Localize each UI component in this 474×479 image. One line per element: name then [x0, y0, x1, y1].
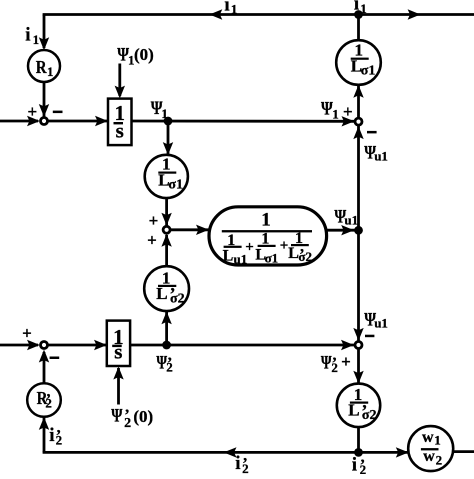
svg-text:+: + [28, 102, 38, 121]
svg-text:1: 1 [434, 432, 441, 447]
svg-text:σ1: σ1 [265, 251, 279, 266]
svg-text:2: 2 [242, 461, 249, 474]
svg-text:w: w [423, 448, 435, 465]
svg-text:1: 1 [161, 106, 168, 121]
svg-text:L: L [223, 248, 234, 265]
svg-text:s: s [114, 340, 122, 364]
svg-text:Ψ: Ψ [321, 98, 333, 119]
svg-text:s: s [116, 119, 124, 143]
svg-text:u1: u1 [374, 316, 388, 331]
svg-text:i: i [25, 25, 30, 46]
svg-text:u1: u1 [344, 213, 358, 228]
svg-text:i: i [352, 455, 357, 474]
svg-text:L: L [156, 284, 167, 303]
svg-text:+: + [245, 239, 254, 255]
svg-text:2: 2 [45, 395, 52, 410]
svg-text:1: 1 [33, 32, 40, 47]
svg-text:u1: u1 [374, 149, 388, 164]
svg-text:1: 1 [332, 106, 339, 121]
svg-text:Ψ: Ψ [321, 352, 332, 373]
svg-text:Ψ: Ψ [111, 406, 122, 427]
svg-text:σ2: σ2 [362, 408, 377, 423]
svg-text:2: 2 [436, 453, 443, 468]
svg-text:(0): (0) [134, 45, 154, 64]
svg-text:+: + [280, 238, 289, 254]
svg-text:+: + [343, 102, 353, 121]
svg-text:1: 1 [261, 210, 271, 231]
svg-text:+: + [147, 231, 157, 250]
svg-text:σ1: σ1 [361, 64, 376, 79]
svg-text:2: 2 [56, 433, 63, 448]
svg-text:2: 2 [331, 360, 338, 375]
svg-text:i: i [224, 0, 229, 15]
svg-text:σ1: σ1 [168, 177, 183, 192]
svg-text:2: 2 [360, 462, 367, 474]
svg-text:+: + [149, 211, 159, 230]
svg-text:2: 2 [124, 416, 131, 431]
svg-text:(0): (0) [133, 407, 153, 426]
svg-text:R: R [36, 57, 48, 77]
svg-text:1: 1 [360, 1, 367, 16]
svg-text:L: L [288, 245, 299, 262]
svg-text:σ2: σ2 [298, 249, 312, 264]
svg-text:1: 1 [231, 1, 238, 16]
svg-text:i: i [49, 425, 54, 446]
svg-text:w: w [422, 429, 434, 446]
svg-text:i: i [235, 453, 240, 474]
svg-text:+: + [341, 352, 351, 371]
svg-text:1: 1 [47, 64, 54, 79]
svg-text:i: i [354, 0, 359, 15]
svg-text:+: + [22, 323, 32, 342]
svg-text:2: 2 [166, 360, 173, 375]
svg-text:L: L [348, 401, 359, 420]
svg-text:σ2: σ2 [170, 292, 185, 307]
